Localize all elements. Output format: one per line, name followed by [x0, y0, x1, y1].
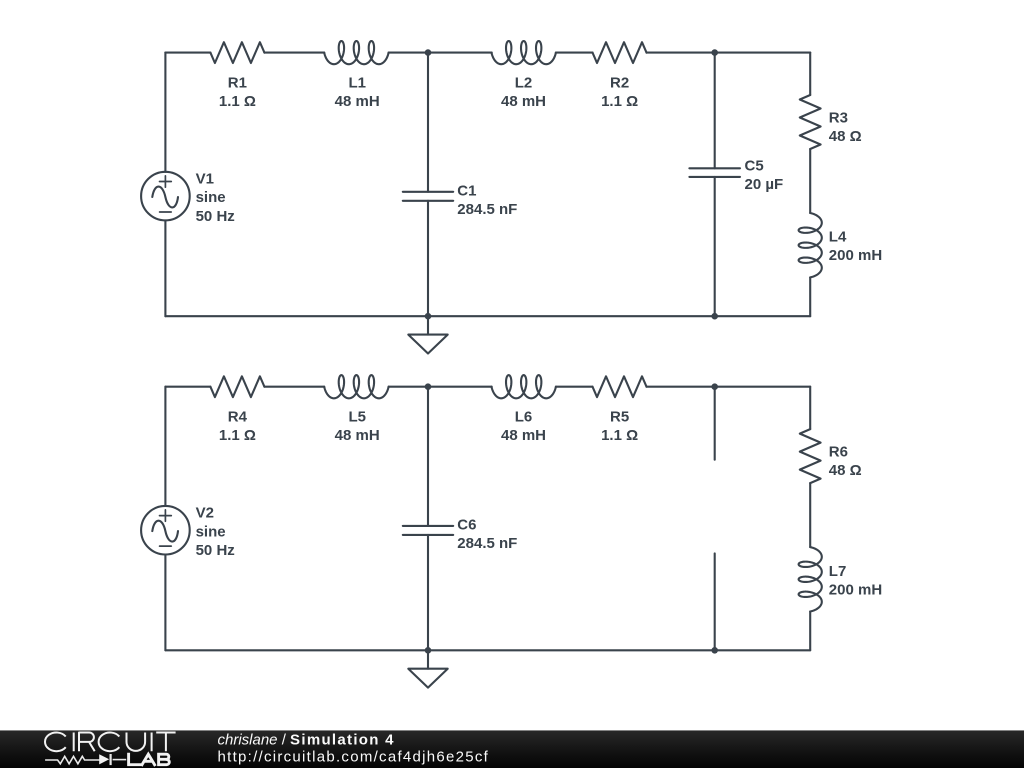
- resistor R5: [593, 376, 647, 397]
- label R4 1.1 Ω: [219, 409, 256, 445]
- inductor L4: [799, 213, 822, 277]
- capacitor C1: [403, 53, 453, 317]
- label V2 sine 50 Hz: [196, 505, 235, 559]
- label R3 48 Ω: [829, 110, 862, 146]
- wire node2-corner: [715, 386, 811, 388]
- label L6 48 mH: [501, 409, 546, 445]
- svg-text:V2: V2: [196, 505, 214, 522]
- svg-text:50 Hz: 50 Hz: [196, 208, 235, 225]
- svg-text:R3: R3: [829, 110, 848, 127]
- svg-text:48 Ω: 48 Ω: [829, 462, 862, 479]
- wire L2-R2: [556, 386, 593, 388]
- inductor L1: [324, 41, 388, 64]
- svg-text:200 mH: 200 mH: [829, 247, 882, 264]
- label L2 48 mH: [501, 74, 546, 110]
- svg-text:L5: L5: [348, 409, 366, 426]
- capacitor C6: [403, 387, 453, 651]
- wire L1-node: [389, 52, 428, 54]
- svg-text:C6: C6: [457, 517, 476, 534]
- svg-text:48 mH: 48 mH: [335, 427, 380, 444]
- svg-text:R2: R2: [610, 74, 629, 91]
- inductor L7: [799, 547, 822, 611]
- wire stub upper (open branch): [714, 387, 716, 460]
- svg-text:284.5 nF: 284.5 nF: [457, 201, 517, 218]
- svg-text:48 mH: 48 mH: [335, 93, 380, 110]
- inductor L5: [324, 375, 388, 398]
- capacitor C5: [689, 53, 740, 317]
- svg-text:1.1 Ω: 1.1 Ω: [601, 427, 638, 444]
- label R5 1.1 Ω: [601, 409, 638, 445]
- resistor R4: [210, 376, 264, 397]
- svg-text:V1: V1: [196, 171, 214, 188]
- wire top-left: [165, 52, 210, 54]
- svg-text:L7: L7: [829, 563, 847, 580]
- svg-text:1.1 Ω: 1.1 Ω: [601, 93, 638, 110]
- wire L4-corner: [809, 612, 811, 651]
- junction node bottom-1: [425, 647, 432, 654]
- label L7 200 mH: [829, 563, 882, 599]
- svg-text:C1: C1: [457, 182, 476, 199]
- wire bottom rail: [165, 649, 810, 651]
- label C5 20 µF: [745, 158, 784, 194]
- wire L4-corner: [809, 277, 811, 316]
- CircuitLab logo wordmark CIRCUIT: [45, 733, 176, 752]
- svg-text:1.1 Ω: 1.1 Ω: [219, 93, 256, 110]
- wire L2-R2: [556, 52, 593, 54]
- wire stub lower (open branch): [714, 553, 716, 650]
- svg-text:48 mH: 48 mH: [501, 93, 546, 110]
- label C6 284.5 nF: [457, 517, 517, 553]
- label L1 48 mH: [335, 74, 380, 110]
- svg-text:sine: sine: [196, 523, 226, 540]
- svg-text:48 Ω: 48 Ω: [829, 128, 862, 145]
- resistor R1: [210, 42, 264, 63]
- wire bottom rail: [165, 315, 810, 317]
- logo resistor-diode wire: [45, 754, 126, 765]
- logo LAB letters: [129, 754, 170, 765]
- ground symbol: [408, 650, 447, 687]
- svg-text:48 mH: 48 mH: [501, 427, 546, 444]
- svg-text:http://circuitlab.com/caf4djh6: http://circuitlab.com/caf4djh6e25cf: [218, 748, 490, 765]
- label L5 48 mH: [335, 409, 380, 445]
- logo diode triangle: [99, 754, 109, 764]
- label R6 48 Ω: [829, 444, 862, 480]
- label V1 sine 50 Hz: [196, 171, 235, 225]
- svg-text:R1: R1: [228, 74, 247, 91]
- junction node top-2: [711, 49, 718, 56]
- label R1 1.1 Ω: [219, 74, 256, 110]
- svg-text:1.1 Ω: 1.1 Ω: [219, 427, 256, 444]
- wire R2-node2: [647, 386, 715, 388]
- junction node bottom-1: [425, 313, 432, 320]
- inductor L6: [492, 375, 556, 398]
- wire node2-corner: [715, 52, 811, 54]
- svg-text:284.5 nF: 284.5 nF: [457, 535, 517, 552]
- svg-text:200 mH: 200 mH: [829, 581, 882, 598]
- svg-text:L4: L4: [829, 229, 847, 246]
- svg-text:sine: sine: [196, 189, 226, 206]
- inductor L2: [492, 41, 556, 64]
- svg-text:C5: C5: [745, 158, 764, 175]
- wire top-left: [165, 386, 210, 388]
- resistor R3: [800, 95, 821, 149]
- wire R3-L4: [809, 149, 811, 213]
- wire R2-node2: [647, 52, 715, 54]
- junction node bottom-2: [711, 647, 718, 654]
- svg-text:R4: R4: [228, 409, 248, 426]
- svg-text:L1: L1: [348, 74, 366, 91]
- svg-text:20 µF: 20 µF: [745, 176, 784, 193]
- wire corner-R3: [809, 53, 811, 95]
- resistor R2: [593, 42, 647, 63]
- voltage source V1 (sine): [141, 53, 190, 317]
- ground symbol: [408, 316, 447, 353]
- svg-text:50 Hz: 50 Hz: [196, 542, 235, 559]
- junction node top-2: [711, 383, 718, 390]
- junction node bottom-2: [711, 313, 718, 320]
- svg-text:R6: R6: [829, 444, 848, 461]
- wire L1-node: [389, 386, 428, 388]
- wire R-L top-left: [264, 52, 324, 54]
- wire R3-L4: [809, 483, 811, 547]
- resistor R6: [800, 429, 821, 483]
- junction node top-1: [425, 383, 432, 390]
- voltage source V2 (sine): [141, 387, 190, 651]
- wire corner-R3: [809, 387, 811, 429]
- wire R-L top-left: [264, 386, 324, 388]
- svg-text:R5: R5: [610, 409, 629, 426]
- svg-text:L6: L6: [515, 409, 533, 426]
- junction node top-1: [425, 49, 432, 56]
- wire node-L2: [428, 386, 492, 388]
- wire node-L2: [428, 52, 492, 54]
- svg-text:L2: L2: [515, 74, 533, 91]
- label C1 284.5 nF: [457, 182, 517, 218]
- svg-text:chrislane / Simulation 4: chrislane / Simulation 4: [218, 731, 395, 748]
- label L4 200 mH: [829, 229, 882, 265]
- label R2 1.1 Ω: [601, 74, 638, 110]
